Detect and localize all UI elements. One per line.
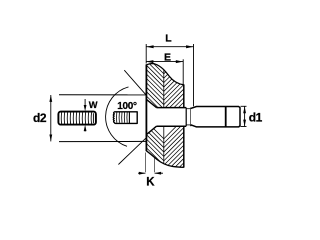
dimension E line [146,61,183,63]
head right face upper [183,84,185,108]
dimension L line [146,44,193,106]
head bottom break curve [146,151,183,168]
head top break curve [146,64,183,85]
svg-text:E: E [164,51,171,63]
dimension K [138,153,163,174]
L right extension [193,44,195,106]
L left extension [145,44,147,64]
threaded stud magnified [58,112,96,125]
inner stud in circle [113,112,137,124]
100-degree upper leg [124,70,146,95]
bore top line [157,107,187,109]
svg-text:100°: 100° [117,101,137,112]
dimension d1 [241,106,247,126]
L arrowheads [146,45,153,48]
svg-text:K: K [146,176,155,188]
E arrowheads [146,60,153,63]
countersink lower flank [147,126,157,134]
dimension W arrows [84,99,86,105]
wire: d2 bottom projection line [59,140,146,142]
E right extension [182,59,184,85]
svg-text:d1: d1 [249,110,263,124]
bore bottom line [157,125,187,127]
svg-text:d2: d2 [33,111,47,125]
svg-text:W: W [89,100,98,110]
svg-text:L: L [165,32,172,44]
hatching head upper-left [138,46,192,135]
shank step line [225,107,227,127]
countersink upper flank [147,100,157,108]
head block white fill to hide circle [146,64,183,168]
hatching head lower [138,107,196,199]
detail circle (open arc) [106,87,129,146]
100-degree lower leg [118,137,146,164]
head right face lower [183,126,185,168]
hatch seam top [163,64,165,108]
head left face [145,64,147,151]
collar between head and shank [185,108,187,127]
shank outline [191,107,240,127]
hatch seam bottom [163,126,165,166]
wire: d2 top projection line [59,94,146,96]
dimension d2 [50,95,52,141]
